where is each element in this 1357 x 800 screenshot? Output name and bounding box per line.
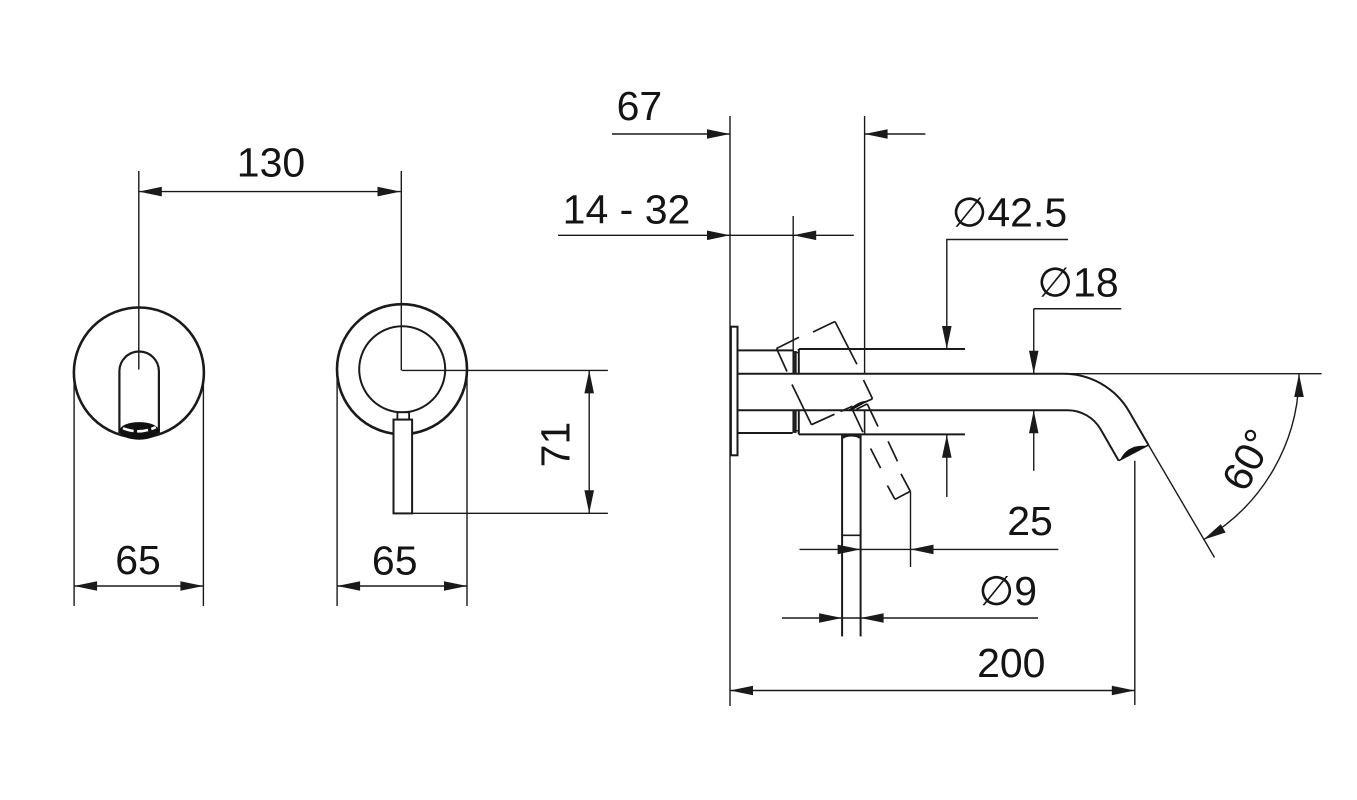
svg-text:65: 65 bbox=[115, 537, 161, 583]
arrow 9 left bbox=[819, 613, 842, 623]
extension line 65-left b bbox=[202, 373, 204, 606]
svg-text:25: 25 bbox=[1007, 498, 1053, 544]
dim line 14-32 bbox=[558, 234, 854, 236]
arrow 65R right bbox=[444, 581, 467, 591]
lever grip raised position (dashed) bbox=[777, 322, 873, 425]
sleeve edge a bbox=[792, 351, 794, 374]
arrow 14-32 left bbox=[707, 231, 730, 241]
svg-text:67: 67 bbox=[617, 83, 663, 129]
spout outlet direction extension bbox=[1149, 445, 1215, 558]
arrow 42.5 top bbox=[942, 326, 952, 349]
escutcheon circle left bbox=[74, 308, 204, 438]
arrow 200 left bbox=[730, 686, 753, 696]
arrow 200 right bbox=[1112, 686, 1135, 696]
spout aerator arc bbox=[1120, 446, 1147, 460]
wall line bbox=[729, 116, 731, 706]
arrow 65R left bbox=[337, 581, 360, 591]
arrow 65L right bbox=[180, 581, 203, 591]
svg-text:200: 200 bbox=[977, 640, 1045, 686]
dimension texts bbox=[115, 83, 1282, 686]
spout outlet face bbox=[1119, 445, 1149, 461]
arrow 67 right bbox=[865, 129, 888, 139]
lever rod joint line bbox=[842, 534, 861, 536]
svg-text:130: 130 bbox=[237, 140, 305, 186]
wall flange bbox=[731, 327, 738, 456]
dim line 65 left bbox=[74, 585, 203, 587]
sleeve edge b bbox=[795, 351, 797, 374]
svg-text:14 - 32: 14 - 32 bbox=[563, 187, 691, 233]
dim line 71 bbox=[588, 370, 590, 513]
spout tube top bbox=[738, 374, 1149, 445]
lever rod down position left edge bbox=[841, 435, 843, 636]
arrow 130 left bbox=[139, 187, 162, 197]
spout tube bottom bbox=[738, 410, 1119, 461]
sleeve-housing tick top bbox=[796, 352, 799, 354]
cartridge housing left edge bbox=[798, 349, 800, 374]
arrow 71 top bbox=[584, 370, 594, 393]
svg-text:∅18: ∅18 bbox=[1037, 260, 1118, 306]
dim line 25 bbox=[800, 548, 1059, 550]
lever rod top cap bbox=[843, 435, 861, 438]
dim line 200 bbox=[730, 690, 1135, 692]
svg-text:∅9: ∅9 bbox=[979, 568, 1038, 614]
svg-text:65: 65 bbox=[372, 538, 418, 584]
spout nose front outline bbox=[119, 351, 158, 433]
arrow 65L left bbox=[74, 581, 97, 591]
dim line 130 bbox=[139, 191, 401, 193]
dim arc 60 bbox=[1203, 374, 1299, 540]
handle stem front bbox=[397, 412, 409, 419]
centerline handle escutcheon bbox=[400, 171, 402, 371]
extension line 14-32 bbox=[792, 216, 794, 351]
arrow 25 left bbox=[838, 545, 861, 555]
extension line 65-right a bbox=[336, 370, 338, 606]
handle lever front bbox=[394, 420, 413, 514]
arrow 18 top bbox=[1029, 351, 1039, 374]
svg-text:71: 71 bbox=[532, 422, 578, 468]
arrow 14-32 right bbox=[793, 231, 816, 241]
lever mid position (dashed) bbox=[853, 404, 911, 500]
body neck bottom bbox=[738, 432, 793, 434]
dim line 9 bbox=[782, 617, 1038, 619]
arrow 67 left bbox=[707, 129, 730, 139]
spout top extension line bbox=[1066, 373, 1322, 375]
handle rosette inner circle bbox=[359, 326, 445, 412]
leader 42.5 bbox=[946, 239, 1068, 241]
arrow 25 right bbox=[911, 545, 934, 555]
sleeve-housing tick bottom bbox=[796, 430, 799, 432]
aerator ellipse bbox=[119, 422, 159, 440]
dim line 67 bbox=[612, 133, 730, 135]
arrow 130 right bbox=[378, 187, 401, 197]
leader 18 bbox=[1034, 308, 1122, 310]
lever ball joint crescent bbox=[850, 402, 866, 410]
body neck top bbox=[738, 349, 793, 351]
arrow 18 bottom bbox=[1029, 410, 1039, 433]
arrow 60 bottom bbox=[1203, 524, 1225, 540]
arrow 71 bottom bbox=[584, 490, 594, 513]
dim line 65 right bbox=[337, 585, 467, 587]
arrow 60 top bbox=[1294, 374, 1304, 397]
lever rod down position right edge bbox=[860, 435, 862, 636]
escutcheon circle right bbox=[337, 304, 467, 434]
arrow 9 right bbox=[861, 613, 884, 623]
arrowheads bbox=[74, 129, 1304, 695]
extension line 200 right bbox=[1134, 461, 1136, 705]
centerline spout escutcheon bbox=[138, 171, 140, 370]
cartridge housing bottom bbox=[799, 433, 965, 435]
arrow 42.5 bottom bbox=[942, 435, 952, 458]
extension line 71 bottom bbox=[412, 512, 608, 514]
extension line 65-left a bbox=[73, 373, 75, 606]
cartridge housing top bbox=[799, 348, 965, 350]
extension line 65-right b bbox=[466, 370, 468, 606]
extension line 25 right bbox=[910, 491, 912, 567]
extension line 71 top bbox=[402, 369, 608, 371]
extension line 67 right / housing step bbox=[864, 116, 866, 374]
aerator highlight bbox=[123, 427, 156, 431]
svg-text:∅42.5: ∅42.5 bbox=[952, 190, 1068, 236]
